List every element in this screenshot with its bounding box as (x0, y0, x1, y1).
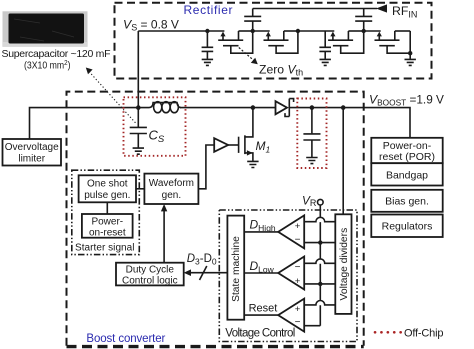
D3-D0 bus arrow (184, 266, 228, 280)
svg-text:Waveform: Waveform (149, 178, 194, 189)
regulators block (371, 215, 442, 238)
svg-text:limiter: limiter (18, 153, 45, 164)
svg-text:Zero Vth: Zero Vth (259, 62, 303, 77)
wire diode to boost edge (289, 107, 363, 109)
off-chip red dotted box (output capacitor) (297, 99, 326, 169)
svg-text:Voltage Control: Voltage Control (225, 327, 295, 339)
inductor L (138, 102, 181, 113)
svg-text:gen.: gen. (162, 190, 181, 201)
svg-text:VBOOST =1.9 V: VBOOST =1.9 V (369, 93, 444, 108)
junction VR to D_High - (318, 240, 322, 244)
overvoltage limiter block (3, 139, 62, 166)
svg-text:pulse gen.: pulse gen. (84, 190, 130, 201)
svg-text:RFIN: RFIN (392, 4, 417, 19)
off-chip legend (375, 328, 444, 340)
capacitor C2 (pump, to RF line) (244, 9, 261, 32)
wire main rail (inductor to diode) (180, 107, 275, 109)
node 2 (251, 29, 255, 33)
one shot pulse gen block (79, 175, 136, 202)
node T4 ground junction (408, 51, 412, 55)
capacitor C3 (shunt) (319, 31, 331, 59)
transistor T2 (253, 31, 298, 53)
transistor T3 (328, 31, 364, 53)
arrow duty cycle to waveform gen (161, 204, 167, 263)
supercapacitor photo (3, 11, 88, 47)
ground (C3) (320, 59, 331, 65)
node 3 (296, 29, 300, 33)
off-chip red dotted box (CS and inductor) (124, 97, 186, 156)
svg-text:One shot: One shot (87, 179, 128, 190)
dashed arrow Zero Vth (239, 48, 258, 65)
wire Reset - input to VR (304, 325, 320, 327)
wire D_Low output (244, 272, 278, 274)
wire buffer to M1 gate (228, 144, 239, 146)
ground (T4) (405, 59, 416, 65)
ground (M1) (247, 161, 258, 167)
RF_IN terminal (376, 4, 387, 12)
svg-text:(3X10 mm2): (3X10 mm2) (24, 60, 70, 72)
transistor T1 (zero-Vth NMOS, diode-connected) (207, 31, 252, 53)
voltage dividers block (335, 214, 351, 314)
ground (C1) (202, 59, 213, 65)
waveform gen block (144, 174, 198, 204)
capacitor C1 (shunt) (202, 31, 214, 59)
POR block (371, 138, 442, 163)
wire waveform gen to buffer (198, 145, 214, 189)
svg-text:+: + (295, 304, 301, 315)
ground (CS) (133, 148, 144, 154)
svg-text:Boost converter: Boost converter (86, 333, 165, 345)
svg-text:Overvoltage: Overvoltage (5, 142, 59, 153)
svg-text:Off-Chip: Off-Chip (404, 328, 444, 340)
wire Reset + input (hop) (304, 301, 335, 305)
capacitor CS (130, 108, 147, 148)
svg-text:M1: M1 (256, 139, 271, 155)
boost converter dashed box (67, 92, 364, 346)
svg-text:−: − (295, 262, 301, 273)
svg-text:−: − (295, 234, 301, 245)
wire VR vertical (319, 205, 321, 326)
wire D_High output (244, 231, 278, 233)
svg-text:Power-on-: Power-on- (383, 140, 432, 152)
supercapacitor caption line 2 (24, 60, 70, 72)
node CS junction (136, 105, 141, 110)
svg-text:+: + (295, 276, 301, 287)
svg-text:Bandgap: Bandgap (386, 169, 428, 181)
svg-text:Bias gen.: Bias gen. (385, 196, 429, 208)
svg-text:−: − (295, 317, 301, 328)
svg-text:VR: VR (302, 193, 317, 208)
junction VR to D_Low + (318, 282, 322, 286)
bandgap block (371, 163, 442, 185)
svg-text:D3-D0: D3-D0 (187, 253, 217, 267)
svg-text:DLow: DLow (250, 259, 275, 275)
svg-text:on-reset: on-reset (89, 227, 126, 238)
VR terminal (302, 193, 323, 208)
wire VS rail to node 1 (138, 30, 207, 32)
svg-text:State machine: State machine (231, 236, 242, 302)
wire D_High - input (304, 242, 335, 244)
rectifier dashed box (115, 3, 432, 79)
wire divider feed down (342, 108, 344, 215)
wire VS vertical (137, 31, 139, 108)
svg-text:Duty Cycle: Duty Cycle (126, 264, 175, 275)
svg-text:Control logic: Control logic (122, 275, 178, 286)
svg-text:Reset: Reset (249, 303, 278, 315)
svg-text:Rectifier: Rectifier (184, 3, 233, 17)
transistor T4 (364, 31, 411, 53)
wire one shot to POR (106, 202, 108, 214)
svg-text:+: + (295, 221, 301, 232)
RF input line (253, 8, 377, 10)
state machine block (227, 216, 244, 320)
node M1 drain (251, 105, 256, 110)
node output capacitor (310, 105, 315, 110)
svg-text:Starter signal: Starter signal (75, 243, 135, 254)
comparator D_High (278, 215, 304, 248)
wire node3 to T3 (298, 30, 334, 32)
svg-text:reset (POR): reset (POR) (379, 151, 435, 163)
comparator D_Low (278, 257, 304, 290)
svg-text:VS = 0.8 V: VS = 0.8 V (123, 17, 179, 32)
capacitor C4 (pump, to RF line) (355, 9, 372, 32)
duty cycle control logic block (116, 263, 184, 287)
wire D_Low - input (hop) (304, 259, 335, 263)
wire Reset output (244, 314, 278, 316)
svg-text:Supercapacitor ~120 mF: Supercapacitor ~120 mF (2, 48, 111, 60)
dotted arrow from C_S to supercapacitor caption (86, 68, 137, 125)
power-on-reset (starter) block (82, 214, 133, 238)
bias gen block (371, 190, 442, 212)
wire T4 to ground (409, 53, 411, 59)
voltage control dash-dot box (219, 210, 357, 342)
ground (COUT) (306, 158, 317, 164)
starter signal dash-dot box (72, 170, 140, 254)
transistor M1 (239, 108, 253, 161)
comparator Reset (278, 299, 304, 332)
svg-text:Regulators: Regulators (382, 221, 433, 233)
gate driver buffer (214, 138, 228, 152)
svg-text:Power-: Power- (91, 216, 123, 227)
svg-text:Voltage dividers: Voltage dividers (339, 228, 350, 301)
node 4 (362, 29, 366, 33)
svg-text:CS: CS (149, 128, 165, 146)
wire overvoltage limiter to node CS (30, 108, 139, 139)
wire VBOOST to POR stack (364, 108, 410, 138)
boost converter dashed box bottom edge (67, 345, 364, 348)
wire D_Low + input (304, 283, 335, 285)
schottky diode D1 (276, 99, 294, 117)
node 1 (205, 29, 209, 33)
svg-text:DHigh: DHigh (250, 218, 276, 234)
wire one shot to waveform gen (136, 188, 144, 190)
capacitor COUT (303, 108, 320, 157)
wire D_High + input (hop) (304, 217, 335, 221)
node voltage divider feed (341, 105, 346, 110)
